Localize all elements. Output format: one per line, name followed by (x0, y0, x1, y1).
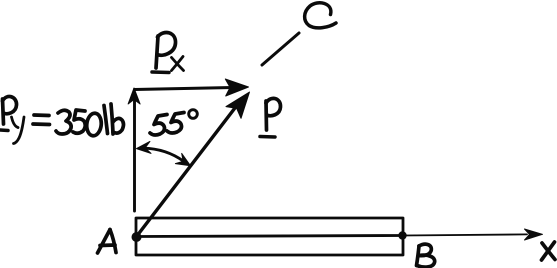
label Px : subscript x (172, 57, 184, 71)
vector P shaft (137, 104, 239, 237)
label Py : subscript y (12, 117, 25, 144)
arc arrowhead right (175, 153, 190, 165)
value 350lb : digit 5 (73, 110, 85, 133)
equals sign (33, 115, 50, 125)
wire x-axis B to arrow (403, 234, 528, 235)
wire x-axis through beam A to B (137, 236, 403, 237)
label P underline (260, 135, 275, 139)
value 350lb : letter l (104, 106, 108, 134)
angle arc 55 deg (143, 148, 184, 161)
value 350lb : digit 3 (56, 110, 71, 134)
label Py : letter P (3, 97, 17, 124)
x-axis arrowhead (525, 229, 543, 240)
label C (305, 3, 336, 28)
angle label degree sign (189, 110, 198, 119)
vector Py arrowhead (128, 88, 140, 104)
label B (417, 244, 435, 267)
value 350lb : digit 0 (86, 113, 103, 137)
angle label 55deg : digit 5 (167, 113, 184, 134)
node B dot (398, 231, 406, 239)
node A dot (132, 232, 142, 242)
label Py : underline (0, 128, 8, 132)
vector P arrowhead (226, 92, 250, 118)
vector Py shaft (vertical) (133, 101, 136, 211)
label Px : underline (152, 70, 169, 74)
label P (vector) (266, 98, 281, 130)
vector Px shaft (135, 88, 234, 90)
vector Px arrowhead (225, 79, 248, 96)
label x (axis) (542, 242, 556, 260)
value 350lb : letter b (111, 104, 124, 134)
label A (98, 230, 117, 254)
wire line to C (262, 33, 299, 65)
arc arrowhead left (137, 141, 152, 153)
beam AB (bar outline) (136, 218, 403, 255)
label Px : letter P (156, 32, 176, 68)
angle label 55deg : digit 5 (150, 115, 167, 136)
